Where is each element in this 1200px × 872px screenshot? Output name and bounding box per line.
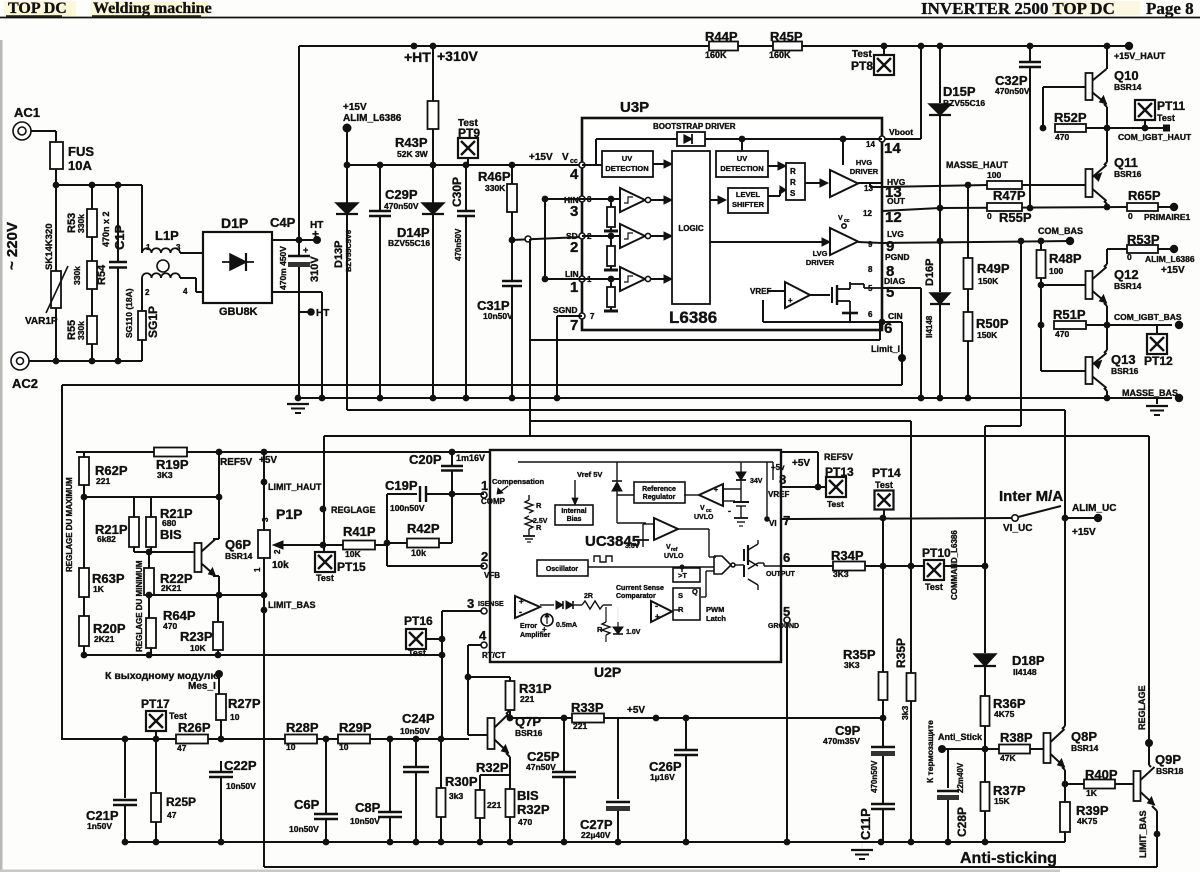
svg-text:330k: 330k: [76, 321, 86, 340]
logic block: [672, 151, 710, 304]
test point PT12: [1144, 325, 1173, 368]
svg-text:R: R: [790, 167, 796, 176]
svg-text:+5V: +5V: [627, 705, 645, 716]
label +15V_HAUT: [1114, 42, 1166, 61]
svg-text:2K21: 2K21: [161, 583, 182, 593]
svg-text:cc: cc: [570, 158, 578, 165]
svg-text:LOGIC: LOGIC: [678, 224, 704, 233]
svg-text:4K75: 4K75: [994, 709, 1015, 719]
svg-text:330k: 330k: [72, 266, 82, 285]
op-amp U2P UC3845 body: [490, 450, 781, 680]
resistor R55: [66, 316, 97, 361]
svg-text:1µ16V: 1µ16V: [650, 772, 675, 782]
svg-text:10K: 10K: [190, 643, 206, 653]
svg-text:D15P: D15P: [943, 84, 976, 99]
resistor R41P: [283, 524, 387, 559]
svg-text:1n50V: 1n50V: [87, 821, 112, 831]
output mosfet: [832, 282, 882, 313]
svg-text:-: -: [519, 607, 522, 617]
svg-text:+: +: [519, 597, 524, 606]
capacitor C9P: [823, 718, 895, 804]
svg-text:C30P: C30P: [450, 177, 464, 207]
svg-text:Oscillator: Oscillator: [546, 566, 579, 573]
node LIMIT_HAUT: [261, 452, 322, 492]
svg-text:Q10: Q10: [1114, 68, 1139, 83]
svg-text:Vboot: Vboot: [889, 127, 913, 137]
svg-text:BOOTSTRAP DRIVER: BOOTSTRAP DRIVER: [653, 122, 736, 131]
svg-text:3K3: 3K3: [157, 470, 173, 480]
test point PT11: [1135, 99, 1185, 131]
svg-text:1m16V: 1m16V: [456, 453, 485, 463]
pin 9 LVG: [868, 229, 904, 255]
transistor Q12: [1086, 249, 1142, 325]
svg-text:+5V: +5V: [259, 455, 277, 466]
test point PT16: [404, 614, 445, 658]
svg-text:Q6P: Q6P: [225, 537, 251, 552]
test point PT17: [141, 697, 187, 739]
current sense comparator: [651, 601, 672, 622]
resistor R55P: [987, 203, 1032, 225]
svg-text:Vref 5V: Vref 5V: [577, 470, 602, 479]
pin 7 SGND: [553, 305, 595, 334]
svg-text:Latch: Latch: [706, 614, 726, 623]
svg-text:GROUND: GROUND: [768, 623, 799, 630]
wire output line: [781, 563, 988, 570]
resistor R37P: [981, 749, 1026, 842]
node MASSE_HAUT: [946, 160, 1009, 258]
svg-text:VAR1P: VAR1P: [25, 316, 58, 327]
capacitor C27P: [580, 718, 630, 842]
svg-text:+HT: +HT: [404, 49, 431, 65]
svg-text:R41P: R41P: [343, 524, 376, 539]
header rule: [0, 17, 1200, 19]
svg-text:COMMAND_L6386: COMMAND_L6386: [950, 530, 959, 600]
divider R zener 1.0V: [597, 607, 641, 642]
svg-text:LIMIT_HAUT: LIMIT_HAUT: [268, 482, 322, 492]
svg-text:D18P: D18P: [1012, 653, 1045, 668]
resistor R45P: [769, 29, 803, 60]
svg-text:R29P: R29P: [339, 720, 372, 735]
wire COM_IGBT_BAS: [1107, 312, 1183, 329]
svg-text:Q12: Q12: [1114, 267, 1139, 282]
capacitor C30P: [450, 165, 475, 401]
svg-text:5: 5: [783, 604, 790, 619]
svg-text:REF5V: REF5V: [824, 452, 853, 462]
node Anti_Stick: [938, 732, 999, 753]
wire node to varistor: [55, 185, 57, 271]
svg-text:FUS: FUS: [68, 144, 94, 159]
svg-text:221: 221: [487, 800, 501, 810]
svg-text:BZV55C16: BZV55C16: [388, 238, 430, 248]
svg-text:R38P: R38P: [1000, 730, 1033, 745]
svg-text:Compensation: Compensation: [492, 477, 545, 486]
svg-text:+: +: [312, 227, 319, 241]
wire COM_BAS to antistick bus: [985, 241, 1021, 566]
svg-text:Q9P: Q9P: [1155, 752, 1181, 767]
node Limit_I: [871, 344, 906, 385]
svg-text:U2P: U2P: [594, 664, 621, 680]
svg-text:>T: >T: [678, 571, 687, 580]
svg-text:~ 220V: ~ 220V: [4, 222, 21, 270]
svg-text:22m40V: 22m40V: [956, 762, 965, 793]
svg-text:8: 8: [868, 265, 873, 274]
svg-text:R55P: R55P: [999, 210, 1032, 225]
svg-text:BSR16: BSR16: [515, 728, 543, 738]
wire SD net: [512, 236, 582, 436]
svg-text:330k: 330k: [76, 214, 86, 233]
wire bootstrap column: [920, 46, 922, 139]
header title right: [921, 0, 1194, 18]
svg-text:BSR14: BSR14: [1071, 743, 1099, 753]
wire +15V rail: [344, 162, 582, 169]
pin 12 OUT: [863, 196, 906, 226]
resistor R38P: [999, 730, 1043, 763]
internal bias block: [555, 505, 593, 525]
svg-text:D16P: D16P: [924, 258, 936, 286]
svg-text:470m35V: 470m35V: [823, 736, 860, 746]
svg-text:C6P: C6P: [294, 797, 320, 812]
resistor R49P: [964, 258, 1010, 312]
svg-text:ALIM_L6386: ALIM_L6386: [343, 113, 402, 124]
resistor R54: [72, 237, 108, 361]
svg-text:R23P: R23P: [180, 629, 213, 644]
resistor R25P: [151, 739, 196, 842]
resistor R21P: [95, 517, 139, 547]
varistor VAR1P: [25, 266, 68, 327]
svg-text:1: 1: [481, 478, 488, 493]
svg-text:100: 100: [1049, 266, 1063, 276]
svg-text:10n50V: 10n50V: [400, 726, 430, 736]
svg-text:PT16: PT16: [404, 614, 433, 628]
svg-text:Comparator: Comparator: [616, 593, 656, 600]
pin 8 PGND: [868, 252, 910, 280]
resistor R63P: [79, 497, 125, 597]
svg-text:COM_BAS: COM_BAS: [1038, 226, 1083, 236]
label REF5V +5V: [220, 455, 277, 468]
svg-text:470n50V: 470n50V: [995, 86, 1030, 96]
wire control rail: [62, 736, 469, 743]
svg-text:Page 8: Page 8: [1146, 0, 1194, 18]
capacitor C20P: [409, 452, 485, 497]
svg-text:SG110 (18A): SG110 (18A): [124, 288, 134, 338]
resistor R43P: [395, 46, 439, 165]
svg-text:PT17: PT17: [141, 697, 170, 711]
svg-text:R33P: R33P: [571, 700, 604, 715]
svg-text:R28P: R28P: [286, 720, 319, 735]
op-amp U3P L6386 body: [582, 99, 882, 330]
svg-text:D1P: D1P: [221, 215, 248, 231]
svg-text:BZV55C16: BZV55C16: [943, 98, 985, 108]
wire +HT vertical riser: [298, 46, 300, 240]
svg-text:470: 470: [1055, 329, 1069, 339]
pin 7 VI: [769, 513, 795, 528]
resistor R40P: [1065, 767, 1133, 798]
capacitor C11P: [858, 760, 895, 842]
transistor Q13: [1086, 325, 1139, 401]
resistor R39P: [1060, 784, 1109, 842]
resistor R52P: [1040, 87, 1111, 142]
svg-text:R: R: [790, 178, 796, 187]
svg-text:470m 450V: 470m 450V: [278, 246, 288, 290]
wire R21P bottoms: [134, 547, 152, 555]
svg-text:Q7P: Q7P: [515, 714, 541, 729]
wire Q12 base: [1041, 284, 1086, 286]
svg-text:3k3: 3k3: [449, 791, 463, 801]
svg-text:221: 221: [96, 476, 110, 486]
terminal ALIM_L6386 +15V: [343, 102, 402, 165]
wire CIN to Limit_I bus: [530, 322, 902, 358]
switch Inter M/A: [999, 488, 1116, 538]
svg-text:UVLO: UVLO: [694, 514, 714, 521]
svg-text:C28P: C28P: [955, 807, 969, 837]
svg-text:Regulator: Regulator: [643, 494, 676, 501]
svg-text:U3P: U3P: [620, 99, 649, 116]
label +15V Vcc: [529, 152, 578, 165]
svg-text:7: 7: [590, 312, 595, 321]
svg-text:10k: 10k: [272, 560, 289, 571]
terminal AC1: [13, 105, 40, 140]
wire HIN LIN link: [542, 196, 582, 283]
svg-text:310V: 310V: [309, 256, 321, 282]
wire varistor to AC2 line: [55, 308, 57, 361]
capacitor C28P: [937, 749, 969, 842]
svg-text:C11P: C11P: [858, 808, 873, 840]
svg-text:+15V: +15V: [343, 102, 367, 113]
terminal HT minus: [299, 308, 329, 319]
svg-text:C1P: C1P: [112, 224, 127, 250]
svg-text:Q13: Q13: [1111, 352, 1136, 367]
pin 3 ISENSE: [442, 596, 504, 614]
svg-text:+: +: [655, 612, 660, 621]
resistor R22P: [144, 552, 193, 600]
svg-text:9: 9: [868, 240, 873, 249]
test point PT8: [851, 46, 894, 75]
svg-text:R42P: R42P: [407, 521, 440, 536]
label REGLAGE DU MINIMUM: [135, 560, 144, 652]
test point PT13: [824, 452, 854, 509]
svg-text:Error: Error: [520, 623, 537, 630]
svg-text:C20P: C20P: [409, 452, 442, 467]
label Compensation: [492, 477, 545, 494]
transistor Q11: [1086, 128, 1142, 210]
pwm latch: [673, 568, 726, 623]
svg-text:C22P: C22P: [224, 758, 257, 773]
pulldown resistor pin2: [604, 236, 618, 270]
svg-text:47K: 47K: [1000, 753, 1016, 763]
resistor R28P: [285, 720, 319, 752]
capacitor C1P: [101, 185, 127, 361]
svg-text:S: S: [790, 189, 796, 198]
svg-text:Il4148: Il4148: [925, 315, 934, 338]
svg-text:cc: cc: [844, 218, 850, 224]
svg-text:Test: Test: [827, 499, 844, 509]
svg-text:Current Sense: Current Sense: [616, 585, 664, 592]
svg-text:PT11: PT11: [1157, 99, 1185, 113]
svg-text:4: 4: [183, 287, 188, 296]
wire ground rail bottom: [122, 839, 1065, 846]
resistor R44P: [705, 29, 738, 60]
svg-text:DRIVER: DRIVER: [806, 258, 835, 267]
svg-text:13: 13: [864, 184, 873, 193]
svg-text:SK14K320: SK14K320: [44, 224, 55, 270]
capacitor C31P: [477, 240, 522, 401]
svg-text:R34P: R34P: [831, 548, 864, 563]
svg-text:Test: Test: [316, 573, 334, 583]
capacitor C22P: [209, 758, 257, 842]
inductor L1P: [142, 185, 188, 297]
svg-text:C4P: C4P: [270, 215, 296, 230]
capacitor C32P: [995, 46, 1041, 211]
svg-text:100n50V: 100n50V: [390, 503, 425, 513]
svg-text:2: 2: [273, 549, 282, 554]
svg-text:Reference: Reference: [642, 486, 676, 493]
svg-text:R27P: R27P: [228, 696, 261, 711]
resistor R21P BIS: [146, 506, 193, 547]
svg-text:R49P: R49P: [977, 261, 1010, 276]
svg-text:R30P: R30P: [445, 774, 478, 789]
svg-text:C19P: C19P: [385, 478, 418, 493]
svg-text:470: 470: [163, 621, 177, 631]
node LIMIT_BAS: [261, 595, 316, 867]
resistor R53: [66, 185, 97, 237]
svg-text:R45P: R45P: [770, 29, 803, 44]
svg-text:R52P: R52P: [1054, 110, 1087, 125]
svg-text:Q11: Q11: [1114, 155, 1138, 170]
transistor Q8P: [1044, 518, 1099, 787]
node REGLAGE: [320, 505, 376, 515]
svg-text:BIS: BIS: [517, 788, 539, 803]
svg-text:100: 100: [987, 170, 1001, 180]
wire fuse to node: [55, 169, 57, 185]
capacitor C29P: [369, 165, 419, 401]
svg-text:10k: 10k: [411, 548, 427, 558]
svg-text:LIMIT_BAS: LIMIT_BAS: [268, 600, 316, 610]
svg-text:3: 3: [570, 203, 578, 220]
svg-text:SGND: SGND: [553, 305, 578, 315]
nor gate: [588, 556, 744, 610]
UV detection right: [716, 151, 786, 177]
wire AC2 line: [29, 358, 142, 365]
capacitor C21P: [86, 739, 137, 842]
svg-text:160K: 160K: [705, 50, 727, 60]
svg-text:1K: 1K: [93, 584, 105, 594]
svg-text:330K: 330K: [485, 183, 506, 193]
wire bottom row: [84, 652, 445, 659]
wire RTCT node: [465, 645, 510, 735]
label SK14K320: [44, 224, 55, 270]
svg-text:10: 10: [286, 742, 296, 752]
LVG driver: [710, 215, 882, 267]
svg-text:R40P: R40P: [1085, 767, 1118, 782]
svg-text:BIS: BIS: [160, 527, 182, 542]
svg-text:14: 14: [866, 140, 875, 149]
svg-text:DRIVER: DRIVER: [850, 167, 879, 176]
svg-text:12: 12: [863, 209, 872, 218]
svg-text:3k3: 3k3: [900, 706, 910, 720]
svg-text:+5V: +5V: [792, 458, 810, 469]
svg-text:2K21: 2K21: [94, 634, 115, 644]
svg-text:R32P: R32P: [476, 760, 509, 775]
wire COM_IGBT_HAUT: [1107, 125, 1192, 143]
resistor R62P: [79, 452, 128, 500]
svg-text:150K: 150K: [977, 330, 998, 340]
svg-text:BZV55C5V6: BZV55C5V6: [344, 230, 353, 272]
zener D15P: [929, 46, 985, 244]
svg-text:3K3: 3K3: [844, 660, 860, 670]
resistor R50P: [964, 312, 1009, 401]
svg-text:+310V: +310V: [437, 48, 479, 64]
svg-text:10K: 10K: [345, 549, 361, 559]
schmitt trigger HIN: [582, 188, 672, 212]
resistor R35P: [843, 566, 888, 721]
schmitt trigger SD: [582, 224, 672, 248]
svg-text:10n50V: 10n50V: [226, 781, 256, 791]
svg-text:0: 0: [987, 211, 992, 221]
svg-text:REGLAGE: REGLAGE: [1137, 685, 1147, 730]
svg-text:Test: Test: [925, 582, 943, 592]
svg-text:0: 0: [1127, 252, 1132, 262]
svg-text:R25P: R25P: [166, 795, 196, 809]
svg-text:BSR14: BSR14: [225, 551, 253, 561]
svg-text:4K75: 4K75: [1077, 816, 1098, 826]
svg-text:+15V: +15V: [1072, 527, 1096, 538]
svg-text:PGND: PGND: [885, 252, 910, 262]
svg-text:MASSE_BAS: MASSE_BAS: [1122, 388, 1178, 398]
resistor R64P: [146, 600, 196, 655]
pin 4 RT/CT: [468, 628, 506, 660]
svg-text:SG1P: SG1P: [146, 306, 160, 338]
svg-text:MASSE_HAUT: MASSE_HAUT: [946, 160, 1009, 170]
svg-text:LVG: LVG: [813, 249, 828, 258]
svg-text:REF5V: REF5V: [220, 457, 253, 468]
svg-text:R65P: R65P: [1128, 188, 1161, 203]
comparator VREF: [750, 282, 830, 308]
svg-text:47n50V: 47n50V: [526, 762, 556, 772]
divider R 2.5V R: [523, 495, 548, 542]
resistor R29P: [338, 720, 372, 752]
test point PT15: [315, 552, 366, 583]
svg-text:L1P: L1P: [155, 228, 179, 243]
resistor R47P: [987, 170, 1086, 203]
resistor R19P: [154, 448, 189, 481]
svg-text:470n50V: 470n50V: [384, 201, 419, 211]
svg-text:C29P: C29P: [385, 187, 418, 202]
label Mes_I: [105, 670, 223, 692]
svg-text:R47P: R47P: [993, 188, 1026, 203]
svg-text:DETECTION: DETECTION: [720, 164, 763, 173]
capacitor C26P: [649, 718, 698, 842]
svg-text:INVERTER 2500 TOP DC: INVERTER 2500 TOP DC: [921, 0, 1115, 18]
ground MASSE_BAS: [1146, 398, 1168, 415]
resistor R34P: [831, 548, 865, 579]
svg-text:150K: 150K: [978, 276, 999, 286]
svg-text:OUTPUT: OUTPUT: [766, 571, 796, 578]
svg-text:2: 2: [145, 288, 150, 297]
pin 2 SD: [566, 231, 592, 256]
wire MASSE_BAS: [298, 388, 1183, 402]
svg-text:BSR16: BSR16: [1114, 169, 1142, 179]
svg-text:UV: UV: [622, 154, 632, 163]
svg-text:Q8P: Q8P: [1071, 729, 1097, 744]
svg-text:GBU8K: GBU8K: [219, 306, 258, 318]
label COMMAND_L6386: [950, 530, 959, 600]
svg-text:221: 221: [520, 694, 534, 704]
svg-text:Inter M/A: Inter M/A: [999, 488, 1063, 505]
resistor R26P: [176, 720, 211, 753]
bootstrap driver: [582, 122, 882, 165]
svg-text:BSR14: BSR14: [1114, 82, 1142, 92]
svg-text:AC1: AC1: [14, 105, 40, 120]
